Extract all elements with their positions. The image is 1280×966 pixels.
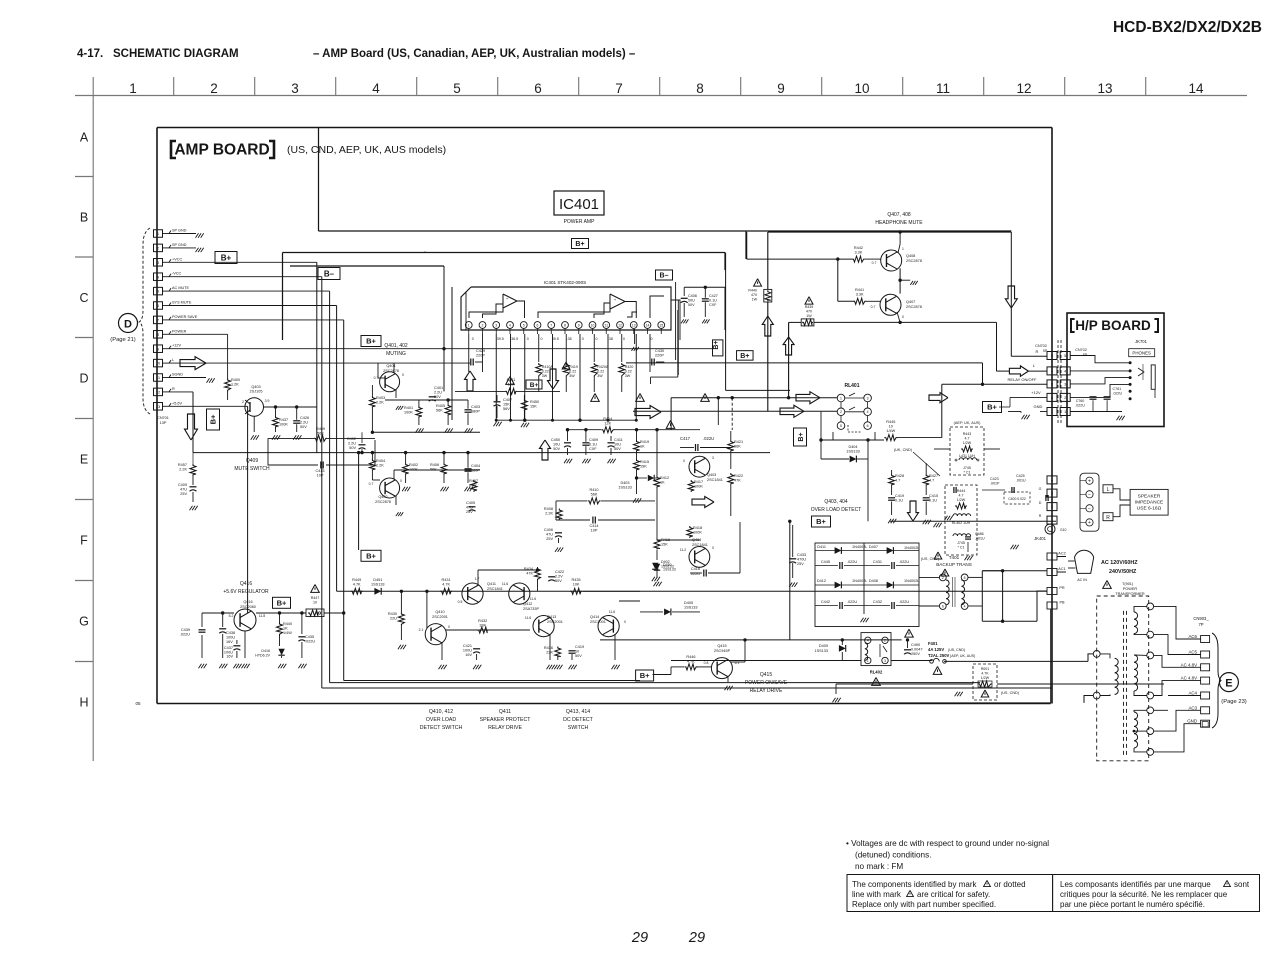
svg-text:R440: R440: [748, 289, 757, 293]
svg-text:C415: C415: [929, 494, 938, 498]
svg-text:AC MUTE: AC MUTE: [172, 286, 190, 290]
svg-text:B+: B+: [816, 517, 826, 526]
svg-text:3W: 3W: [625, 374, 631, 378]
svg-text:Q413: Q413: [547, 615, 556, 619]
svg-text:+5.6V REGULATOR: +5.6V REGULATOR: [223, 589, 269, 595]
svg-text:R428: R428: [895, 474, 904, 478]
svg-text:D451: D451: [373, 578, 382, 582]
svg-text:AC 4.8V: AC 4.8V: [1181, 676, 1197, 681]
svg-text:CN903_: CN903_: [1193, 616, 1209, 621]
svg-text:56K: 56K: [591, 493, 598, 497]
svg-text:10P: 10P: [591, 529, 598, 533]
svg-text:R402: R402: [409, 463, 418, 467]
svg-text:15K: 15K: [661, 543, 668, 547]
svg-text:50V: 50V: [555, 579, 562, 583]
svg-text:0.22: 0.22: [569, 370, 576, 374]
svg-text:0: 0: [527, 337, 529, 341]
svg-text:2.2U: 2.2U: [348, 442, 356, 446]
svg-text:0: 0: [472, 337, 474, 341]
svg-text:+12V: +12V: [1031, 390, 1041, 395]
svg-text:11.6: 11.6: [530, 597, 536, 601]
svg-text:R405: R405: [436, 404, 445, 408]
svg-text:(US, CND): (US, CND): [1001, 691, 1020, 695]
svg-text:6: 6: [867, 424, 869, 428]
svg-text:Q403: Q403: [251, 385, 260, 389]
svg-text:R410: R410: [589, 488, 598, 492]
svg-text:R408: R408: [544, 507, 553, 511]
svg-text:2SC2878: 2SC2878: [906, 259, 922, 263]
svg-text:(AEP, UK, AUS): (AEP, UK, AUS): [950, 654, 975, 658]
svg-text:C418: C418: [691, 567, 700, 571]
svg-text:D450: D450: [663, 563, 672, 567]
svg-text:C421: C421: [463, 644, 472, 648]
svg-text:TRANSFORMER: TRANSFORMER: [1115, 592, 1145, 596]
svg-text:5: 5: [453, 81, 461, 96]
svg-text:AC3: AC3: [1188, 705, 1197, 710]
svg-text:2SC1841: 2SC1841: [692, 543, 708, 547]
svg-text:8: 8: [964, 576, 966, 580]
svg-text:Q407, 408: Q407, 408: [887, 212, 911, 218]
svg-text:0.22: 0.22: [625, 370, 632, 374]
svg-text:2SC2001: 2SC2001: [432, 615, 448, 619]
svg-text:8: 8: [696, 81, 704, 96]
svg-text:AC1: AC1: [1058, 567, 1065, 571]
svg-text:29: 29: [688, 930, 705, 946]
svg-text:C401: C401: [434, 386, 443, 390]
svg-text:50V: 50V: [575, 654, 582, 658]
svg-text:3.9: 3.9: [265, 399, 270, 403]
svg-text:C411: C411: [614, 438, 623, 442]
svg-text:C409: C409: [178, 483, 187, 487]
svg-text:POWER AMP: POWER AMP: [564, 219, 596, 225]
svg-text:C761: C761: [1113, 387, 1122, 391]
svg-text:* C1: * C1: [958, 546, 965, 550]
svg-text:HEADPHONE MUTE: HEADPHONE MUTE: [875, 220, 923, 226]
svg-text:0: 0: [651, 337, 653, 341]
svg-text:R427: R427: [929, 474, 938, 478]
svg-text:0.7: 0.7: [369, 482, 374, 486]
svg-text:SWITCH: SWITCH: [568, 725, 589, 731]
svg-text:* C1: * C1: [964, 471, 971, 475]
svg-text:8: 8: [564, 323, 566, 327]
svg-text:0: 0: [400, 479, 402, 483]
svg-text:100U: 100U: [463, 649, 472, 653]
svg-text:R422: R422: [734, 474, 743, 478]
svg-text:15K: 15K: [530, 405, 537, 409]
svg-text:1W: 1W: [752, 298, 758, 302]
svg-text:33K: 33K: [479, 624, 486, 628]
svg-text:L: L: [1107, 487, 1110, 493]
svg-text:AC 4.8V: AC 4.8V: [1181, 662, 1197, 667]
svg-text:8.2K: 8.2K: [469, 484, 477, 488]
svg-text:SP GND: SP GND: [172, 243, 187, 247]
svg-text:Q410: Q410: [435, 610, 444, 614]
svg-text:C450: C450: [551, 438, 560, 442]
svg-text:16V: 16V: [226, 655, 233, 659]
svg-text:3.3K: 3.3K: [854, 251, 862, 255]
svg-text:C400 0.022: C400 0.022: [1008, 497, 1026, 501]
svg-text:240V/50HZ: 240V/50HZ: [1109, 569, 1137, 575]
svg-text:J745: J745: [957, 541, 965, 545]
svg-text:G10: G10: [1060, 528, 1067, 532]
svg-text:10: 10: [575, 650, 579, 654]
svg-text:4.7: 4.7: [895, 479, 900, 483]
svg-text:1N4002L: 1N4002L: [852, 545, 867, 549]
svg-text:0.22: 0.22: [597, 370, 604, 374]
svg-text:2.2K: 2.2K: [376, 464, 384, 468]
svg-text:100K: 100K: [409, 468, 418, 472]
svg-text:Q410, 412: Q410, 412: [429, 709, 453, 715]
svg-text:R001: R001: [981, 667, 990, 671]
svg-text:100K: 100K: [279, 423, 288, 427]
svg-text:B+: B+: [366, 552, 376, 561]
svg-text:50V: 50V: [300, 425, 307, 429]
svg-text:B+: B+: [530, 382, 539, 389]
svg-text:14: 14: [1188, 81, 1204, 96]
svg-text:GND: GND: [1187, 719, 1197, 724]
svg-text:.022U: .022U: [305, 640, 315, 644]
svg-text:3: 3: [867, 396, 869, 400]
svg-text:13: 13: [156, 404, 161, 409]
svg-text:R436: R436: [544, 646, 553, 650]
svg-text:Q404: Q404: [692, 538, 701, 542]
svg-text:AC 120V/60HZ: AC 120V/60HZ: [1101, 560, 1138, 566]
svg-text:SPEAKER PROTECT: SPEAKER PROTECT: [480, 717, 532, 723]
svg-text:Q409: Q409: [246, 458, 258, 464]
svg-text:CXF: CXF: [589, 447, 597, 451]
svg-text:+5.6V: +5.6V: [172, 401, 182, 405]
svg-text:2.1: 2.1: [419, 628, 424, 632]
svg-text:10K: 10K: [573, 583, 580, 587]
svg-text:BACKUP TRANS: BACKUP TRANS: [936, 562, 972, 567]
svg-text:R432: R432: [478, 619, 487, 623]
svg-text:D: D: [124, 319, 132, 331]
svg-text:50V: 50V: [349, 446, 356, 450]
svg-text:C427: C427: [709, 294, 718, 298]
svg-text:R403: R403: [376, 396, 385, 400]
svg-text:0.1U: 0.1U: [589, 443, 597, 447]
svg-text:B+: B+: [575, 241, 584, 248]
svg-text:4.7K: 4.7K: [353, 583, 361, 587]
svg-text:Q412: Q412: [523, 602, 532, 606]
svg-text:0: 0: [683, 459, 685, 463]
svg-text:R400: R400: [231, 378, 240, 382]
svg-text:R: R: [1036, 349, 1039, 354]
svg-text:.022U: .022U: [899, 600, 909, 604]
svg-text:MUTING: MUTING: [386, 351, 406, 357]
svg-text:4: 4: [372, 81, 380, 96]
svg-text:2.2U: 2.2U: [434, 391, 442, 395]
svg-text:11.6: 11.6: [525, 616, 531, 620]
svg-text:B: B: [80, 211, 88, 225]
svg-text:(detuned) conditions.: (detuned) conditions.: [855, 851, 931, 860]
svg-text:2.2K: 2.2K: [376, 401, 384, 405]
svg-text:Q411: Q411: [499, 709, 511, 715]
svg-text:25V: 25V: [797, 562, 804, 566]
svg-text:AC4: AC4: [1188, 691, 1197, 696]
svg-text:par une pièce portant le numér: par une pièce portant le numéro spécifié…: [1060, 900, 1205, 909]
svg-text:E: E: [1225, 678, 1232, 690]
svg-text:4.7: 4.7: [929, 479, 934, 483]
svg-text:.022U: .022U: [180, 633, 190, 637]
svg-text:12: 12: [156, 390, 161, 395]
svg-text:C431: C431: [873, 560, 882, 564]
svg-text:-VCC: -VCC: [172, 272, 182, 276]
svg-text:D412: D412: [817, 579, 826, 583]
svg-text:D: D: [79, 372, 88, 386]
svg-text:47U: 47U: [466, 506, 473, 510]
svg-text:0.1U: 0.1U: [895, 499, 903, 503]
svg-text:-36.5: -36.5: [510, 337, 518, 341]
svg-text:CN702: CN702: [1035, 344, 1047, 348]
svg-text:C419: C419: [895, 494, 904, 498]
svg-text:C407: C407: [503, 398, 512, 402]
svg-text:F401: F401: [928, 641, 938, 646]
svg-text:13: 13: [1097, 81, 1112, 96]
svg-text:2.2K: 2.2K: [179, 468, 187, 472]
svg-text:1/4W: 1/4W: [283, 631, 292, 635]
svg-text:47U: 47U: [546, 533, 553, 537]
svg-text:100U: 100U: [226, 636, 235, 640]
svg-text:R444: R444: [957, 489, 966, 493]
svg-text:R434: R434: [524, 567, 533, 571]
svg-text:DETECT SWITCH: DETECT SWITCH: [420, 725, 463, 731]
svg-text:R417: R417: [694, 480, 703, 484]
svg-text:R406: R406: [430, 463, 439, 467]
svg-text:RELAY DRIVE: RELAY DRIVE: [488, 725, 522, 731]
svg-text:25V: 25V: [546, 537, 553, 541]
svg-text:Q411: Q411: [487, 582, 496, 586]
svg-text:POWER ON/SAVE: POWER ON/SAVE: [745, 680, 788, 686]
svg-text:2: 2: [884, 639, 886, 643]
svg-text:1SS133: 1SS133: [684, 606, 698, 610]
svg-text:.022U: .022U: [847, 560, 857, 564]
svg-text:6: 6: [534, 81, 542, 96]
svg-text:B–: B–: [660, 273, 669, 280]
svg-text:5.2: 5.2: [229, 614, 234, 618]
svg-text:R439: R439: [805, 305, 814, 309]
svg-text:680P: 680P: [471, 469, 480, 473]
svg-text:(UK, CND): (UK, CND): [894, 448, 913, 452]
svg-text:56K: 56K: [430, 468, 437, 472]
svg-text:7: 7: [550, 323, 552, 327]
svg-text:2.2U: 2.2U: [300, 421, 308, 425]
svg-text:OVER LOAD: OVER LOAD: [426, 717, 457, 723]
svg-text:C432: C432: [873, 600, 882, 604]
svg-text:B+: B+: [987, 403, 997, 412]
svg-text:D: D: [1039, 501, 1042, 505]
svg-text:C403: C403: [471, 405, 480, 409]
svg-text:C442: C442: [821, 600, 830, 604]
svg-text:15K: 15K: [503, 403, 510, 407]
svg-text:.001U: .001U: [1016, 479, 1026, 483]
svg-text:56K: 56K: [317, 432, 324, 436]
svg-text:D416: D416: [261, 649, 270, 653]
svg-text:0: 0: [582, 337, 584, 341]
svg-text:50V: 50V: [553, 447, 560, 451]
svg-text:POWER SAVE: POWER SAVE: [172, 315, 198, 319]
svg-text:4A 125V: 4A 125V: [928, 647, 944, 652]
svg-text:JK401: JK401: [1034, 536, 1047, 541]
svg-text:12K: 12K: [508, 383, 515, 387]
svg-text:R410A: R410A: [542, 365, 554, 369]
svg-text:T401: T401: [949, 555, 960, 560]
svg-text:1N4002L: 1N4002L: [904, 579, 919, 583]
svg-text:C429: C429: [476, 349, 485, 353]
svg-text:5: 5: [523, 323, 525, 327]
svg-text:.022U: .022U: [847, 600, 857, 604]
svg-text:10: 10: [156, 361, 161, 366]
svg-text:470: 470: [751, 293, 757, 297]
svg-text:IMPEDANCE: IMPEDANCE: [1135, 500, 1164, 506]
svg-text:SYS MUTE: SYS MUTE: [172, 301, 192, 305]
svg-text:C409: C409: [589, 438, 598, 442]
svg-text:D403: D403: [620, 481, 629, 485]
svg-text:R450: R450: [530, 400, 539, 404]
svg-text:1.7: 1.7: [475, 577, 480, 581]
svg-text:1SS133: 1SS133: [663, 568, 676, 572]
svg-text:D405: D405: [684, 601, 693, 605]
svg-text:1SS133: 1SS133: [814, 649, 828, 653]
svg-text:R415: R415: [640, 460, 649, 464]
svg-text:2.2K: 2.2K: [545, 512, 553, 516]
svg-text:D411: D411: [817, 545, 826, 549]
svg-text:1N4002L: 1N4002L: [852, 579, 867, 583]
svg-text:0.0047: 0.0047: [911, 648, 923, 652]
svg-text:6: 6: [537, 323, 539, 327]
svg-text:2: 2: [210, 81, 218, 96]
svg-text:SP: SP: [1083, 353, 1088, 357]
svg-text:250V: 250V: [911, 652, 920, 656]
svg-text:C445: C445: [821, 560, 830, 564]
svg-text:220P: 220P: [655, 354, 664, 358]
svg-text:05: 05: [135, 701, 141, 706]
svg-text:F: F: [80, 534, 88, 548]
svg-text:PB: PB: [1059, 601, 1065, 605]
svg-text:AC2: AC2: [1058, 552, 1065, 556]
svg-text:.022U: .022U: [1113, 392, 1123, 396]
svg-text:R407: R407: [469, 479, 478, 483]
svg-text:D409: D409: [819, 644, 828, 648]
svg-text:0: 0: [448, 625, 450, 629]
svg-text:0.5: 0.5: [458, 600, 463, 604]
svg-text:0.1U: 0.1U: [709, 299, 717, 303]
svg-text:E: E: [80, 453, 88, 467]
svg-text:4: 4: [867, 639, 869, 643]
svg-text:R435: R435: [572, 578, 581, 582]
svg-text:39.5: 39.5: [497, 337, 504, 341]
svg-text:SCHEMATIC DIAGRAM: SCHEMATIC DIAGRAM: [113, 48, 239, 60]
svg-text:14: 14: [646, 323, 650, 327]
svg-text:100K: 100K: [404, 411, 413, 415]
svg-text:0.8: 0.8: [704, 661, 709, 665]
svg-text:2: 2: [942, 576, 944, 580]
svg-text:11: 11: [936, 81, 950, 96]
svg-text:1SS133: 1SS133: [618, 486, 632, 490]
svg-text:0: 0: [623, 337, 625, 341]
svg-text:C430: C430: [655, 349, 664, 353]
svg-text:MUTE SWITCH: MUTE SWITCH: [234, 466, 270, 472]
svg-text:25V: 25V: [180, 492, 187, 496]
svg-text:4.7K: 4.7K: [442, 583, 450, 587]
svg-text:G: G: [1039, 487, 1042, 491]
svg-text:680P: 680P: [471, 410, 480, 414]
svg-text:C406: C406: [544, 528, 553, 532]
svg-text:PR: PR: [1059, 586, 1065, 590]
svg-text:11.8: 11.8: [259, 614, 265, 618]
svg-text:sont: sont: [1234, 880, 1250, 889]
svg-text:Q407: Q407: [906, 300, 915, 304]
svg-text:R: R: [1039, 514, 1042, 518]
svg-text:1SS133: 1SS133: [371, 583, 385, 587]
svg-text:10: 10: [591, 323, 595, 327]
svg-text:−: −: [1088, 492, 1091, 498]
svg-text:C: C: [79, 291, 88, 305]
svg-text:2SC1841: 2SC1841: [487, 587, 503, 591]
svg-text:C402: C402: [347, 437, 356, 441]
svg-text:1: 1: [902, 247, 904, 251]
svg-text:0: 0: [402, 373, 404, 377]
svg-text:12: 12: [1016, 81, 1031, 96]
svg-text:25V: 25V: [466, 510, 473, 514]
svg-text:C417: C417: [680, 436, 691, 441]
svg-text:0: 0: [596, 337, 598, 341]
svg-text:– AMP Board (US, Canadian, AEP: – AMP Board (US, Canadian, AEP, UK, Aust…: [313, 48, 636, 60]
svg-text:22U: 22U: [390, 617, 397, 621]
svg-text:(Page 23): (Page 23): [1221, 699, 1247, 705]
svg-text:11: 11: [604, 323, 608, 327]
svg-text:4: 4: [509, 323, 511, 327]
svg-text:R414: R414: [603, 417, 612, 421]
svg-text:HCD-BX2/DX2/DX2B: HCD-BX2/DX2/DX2B: [1113, 19, 1262, 36]
svg-text:(US, CND): (US, CND): [948, 648, 965, 652]
svg-text:C486: C486: [975, 532, 984, 536]
svg-text:3W: 3W: [597, 374, 603, 378]
svg-text:line with mark: line with mark: [852, 890, 902, 899]
svg-text:0: 0: [541, 337, 543, 341]
svg-text:Q401, 402: Q401, 402: [384, 343, 408, 349]
svg-text:1.2K: 1.2K: [231, 383, 239, 387]
svg-text:R409: R409: [316, 427, 325, 431]
svg-text:C422: C422: [555, 570, 564, 574]
svg-text:R447: R447: [311, 596, 320, 600]
svg-text:The components identified by m: The components identified by mark: [852, 880, 978, 889]
svg-text:10: 10: [854, 81, 869, 96]
svg-text:0.22: 0.22: [542, 370, 549, 374]
svg-text:.022U: .022U: [899, 560, 909, 564]
svg-text:.022U: .022U: [703, 436, 714, 441]
svg-text:RL402: RL402: [870, 670, 883, 675]
svg-text:B+: B+: [366, 337, 376, 346]
svg-text:Q415: Q415: [717, 644, 726, 648]
svg-text:2SC2878: 2SC2878: [906, 305, 922, 309]
svg-text:4: 4: [867, 410, 869, 414]
svg-text:RL401: RL401: [844, 383, 859, 389]
svg-text:1K: 1K: [640, 445, 645, 449]
svg-text:G: G: [79, 615, 89, 629]
svg-text:10: 10: [889, 425, 893, 429]
svg-text:C405: C405: [466, 501, 475, 505]
svg-text:R457: R457: [178, 463, 187, 467]
svg-text:C404: C404: [471, 464, 480, 468]
svg-text:C435: C435: [305, 635, 314, 639]
svg-text:2SC2060: 2SC2060: [240, 605, 256, 609]
svg-text:(Page 21): (Page 21): [110, 337, 136, 343]
svg-text:L431 1UH: L431 1UH: [959, 454, 975, 458]
svg-text:C433: C433: [797, 553, 806, 557]
svg-text:B+: B+: [209, 414, 218, 424]
svg-text:56V: 56V: [503, 407, 510, 411]
